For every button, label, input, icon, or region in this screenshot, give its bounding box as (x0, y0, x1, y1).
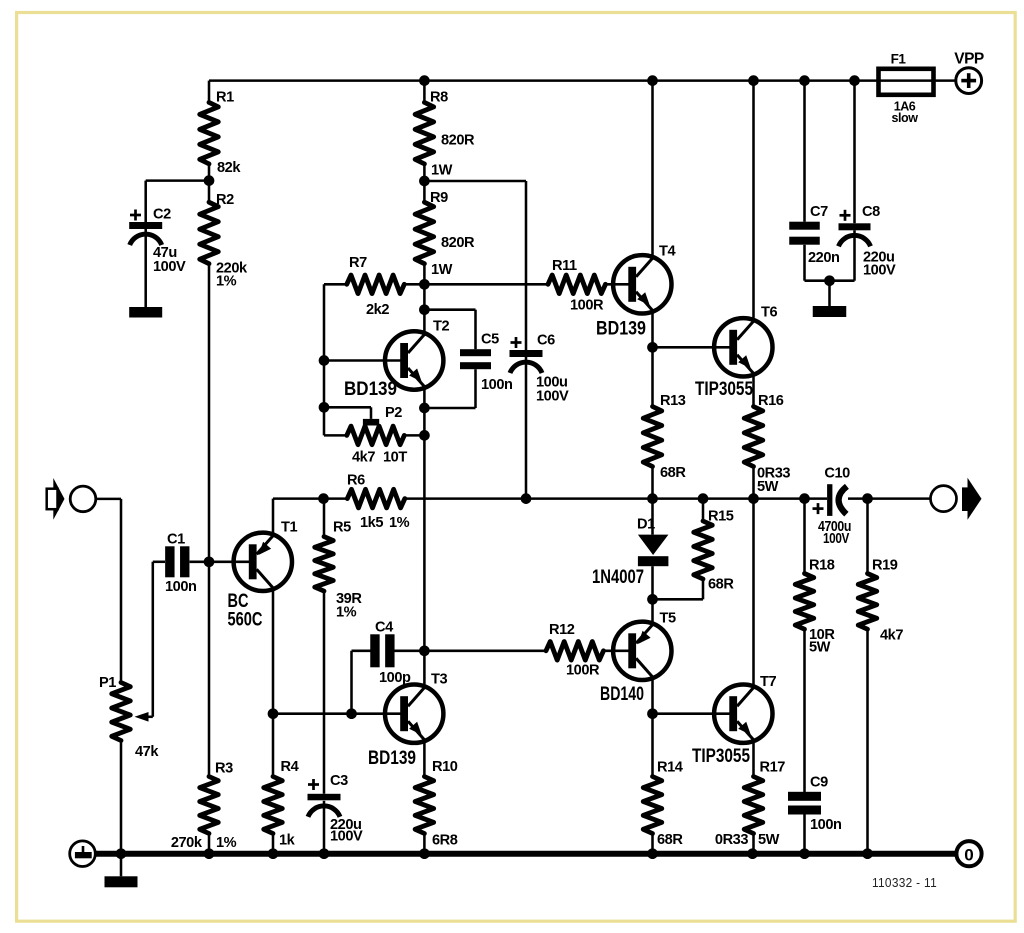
svg-text:R2: R2 (216, 192, 234, 208)
svg-text:0R33: 0R33 (715, 832, 748, 848)
svg-text:1k5: 1k5 (360, 515, 383, 531)
svg-text:C2: C2 (153, 206, 171, 222)
svg-text:T7: T7 (760, 674, 776, 690)
svg-text:5W: 5W (809, 639, 831, 655)
svg-text:82k: 82k (217, 160, 241, 176)
svg-text:R8: R8 (430, 89, 448, 105)
svg-text:P1: P1 (99, 675, 116, 691)
svg-text:F1: F1 (891, 51, 907, 66)
svg-text:R3: R3 (215, 760, 233, 776)
svg-text:68R: 68R (660, 465, 686, 481)
svg-text:P2: P2 (385, 405, 402, 421)
svg-text:100n: 100n (810, 817, 842, 833)
svg-text:270k: 270k (171, 835, 203, 851)
svg-text:T4: T4 (659, 243, 676, 259)
svg-text:100V: 100V (863, 262, 896, 278)
svg-text:C4: C4 (375, 619, 394, 635)
svg-text:BD139: BD139 (368, 748, 416, 769)
svg-text:1%: 1% (216, 273, 237, 289)
svg-text:R10: R10 (432, 759, 458, 775)
svg-text:6R8: 6R8 (432, 832, 458, 848)
svg-text:4k7: 4k7 (352, 449, 375, 465)
svg-text:T3: T3 (431, 671, 447, 687)
svg-text:T5: T5 (660, 610, 676, 626)
svg-text:BD139: BD139 (596, 318, 646, 339)
svg-text:TIP3055: TIP3055 (695, 379, 753, 400)
svg-text:1k: 1k (279, 832, 296, 848)
svg-text:4k7: 4k7 (880, 627, 903, 643)
svg-text:R7: R7 (349, 255, 367, 271)
svg-text:110332 - 11: 110332 - 11 (872, 875, 937, 890)
svg-text:100V: 100V (823, 531, 850, 547)
svg-text:100V: 100V (330, 828, 363, 844)
svg-text:100V: 100V (536, 388, 569, 404)
svg-text:VPP: VPP (954, 50, 984, 67)
svg-text:100n: 100n (481, 377, 513, 393)
svg-text:100V: 100V (153, 259, 186, 275)
svg-text:1N4007: 1N4007 (592, 567, 644, 588)
svg-text:100R: 100R (570, 298, 604, 314)
svg-text:R14: R14 (657, 759, 684, 775)
svg-text:5W: 5W (757, 479, 779, 495)
svg-text:R1: R1 (216, 89, 234, 105)
svg-text:R18: R18 (809, 557, 835, 573)
svg-text:T2: T2 (433, 318, 449, 334)
svg-text:BD139: BD139 (344, 379, 397, 400)
svg-text:1%: 1% (389, 515, 410, 531)
svg-text:1W: 1W (431, 162, 453, 178)
svg-text:TIP3055: TIP3055 (692, 746, 750, 767)
svg-text:R17: R17 (760, 759, 786, 775)
svg-text:2k2: 2k2 (366, 302, 389, 318)
svg-text:R13: R13 (660, 393, 686, 409)
svg-text:R11: R11 (552, 258, 577, 274)
svg-text:C7: C7 (810, 204, 828, 220)
svg-text:R4: R4 (281, 759, 300, 775)
svg-text:C5: C5 (481, 331, 499, 347)
svg-text:C6: C6 (537, 332, 555, 348)
svg-text:R9: R9 (430, 190, 448, 206)
svg-text:68R: 68R (657, 832, 683, 848)
svg-text:100R: 100R (566, 662, 600, 678)
svg-text:R15: R15 (708, 508, 734, 524)
svg-text:D1: D1 (637, 517, 655, 533)
svg-text:R6: R6 (347, 472, 365, 488)
svg-text:T1: T1 (281, 519, 297, 535)
svg-text:10T: 10T (383, 449, 407, 465)
svg-text:C9: C9 (810, 774, 828, 790)
svg-text:C1: C1 (167, 531, 185, 547)
svg-text:C10: C10 (824, 466, 850, 482)
svg-text:1%: 1% (216, 835, 237, 851)
svg-text:560C: 560C (228, 610, 263, 631)
svg-text:C3: C3 (330, 773, 348, 789)
svg-text:1%: 1% (336, 604, 357, 620)
svg-text:5W: 5W (758, 832, 780, 848)
svg-text:820R: 820R (441, 235, 475, 251)
svg-text:BD140: BD140 (600, 684, 644, 705)
svg-text:68R: 68R (708, 576, 734, 592)
svg-text:T6: T6 (761, 304, 777, 320)
svg-text:1W: 1W (431, 262, 453, 278)
svg-text:C8: C8 (862, 204, 880, 220)
svg-text:R19: R19 (872, 557, 898, 573)
svg-text:820R: 820R (441, 132, 475, 148)
svg-text:R5: R5 (333, 519, 351, 535)
svg-text:R12: R12 (549, 622, 575, 638)
svg-text:47k: 47k (135, 744, 159, 760)
svg-text:0: 0 (964, 845, 973, 864)
svg-text:slow: slow (892, 111, 919, 125)
svg-text:R16: R16 (758, 393, 784, 409)
svg-text:220n: 220n (808, 250, 840, 266)
svg-text:100n: 100n (165, 579, 197, 595)
